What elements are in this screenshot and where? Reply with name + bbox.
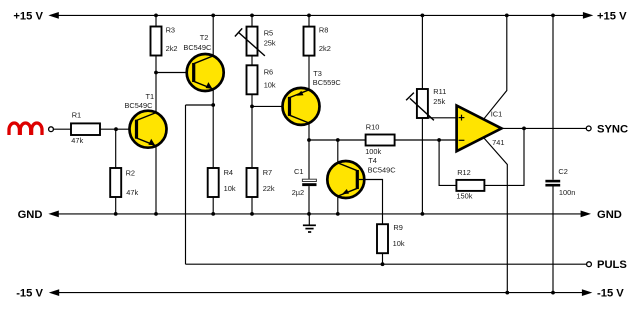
wire node A to R2 <box>115 129 117 168</box>
wire PULS line <box>186 263 587 265</box>
svg-text:47k: 47k <box>71 136 83 145</box>
+15V terminal right <box>583 10 627 22</box>
wire R11 wiper to GND rail <box>421 118 425 216</box>
svg-text:10k: 10k <box>224 184 236 193</box>
svg-text:R12: R12 <box>457 168 471 177</box>
preset R11 <box>406 87 446 121</box>
svg-text:R1: R1 <box>72 111 81 120</box>
svg-text:GND: GND <box>18 209 43 221</box>
wire GND rail <box>52 213 583 215</box>
svg-text:BC559C: BC559C <box>313 78 342 87</box>
transistor T1 <box>125 92 167 148</box>
wire +15V to R8 <box>307 14 311 27</box>
svg-text:C2: C2 <box>558 167 567 176</box>
svg-text:R4: R4 <box>224 168 233 177</box>
wire node D to T3 base <box>252 105 289 107</box>
wire node C down to PULS line <box>185 105 187 264</box>
svg-text:R7: R7 <box>263 168 272 177</box>
wire R5 to R6 <box>251 56 253 66</box>
wire T1 emitter to GND rail <box>154 146 158 216</box>
svg-text:741: 741 <box>492 138 504 147</box>
svg-text:BC549C: BC549C <box>183 43 212 52</box>
svg-text:-15 V: -15 V <box>16 288 43 300</box>
svg-text:25k: 25k <box>264 39 276 48</box>
input coil symbol <box>9 123 42 135</box>
svg-text:R2: R2 <box>126 168 135 177</box>
wire R3 to node B <box>154 56 158 75</box>
wire input to R1 <box>53 128 71 130</box>
svg-text:+15 V: +15 V <box>13 10 43 22</box>
-15V terminal left <box>16 288 59 300</box>
preset R5 <box>235 27 276 56</box>
resistor R4 <box>208 168 236 197</box>
wire R7 to GND rail <box>250 197 254 216</box>
wire R10 to opamp inverting input, node F <box>395 138 457 142</box>
wire feedback output to R12 <box>484 128 524 185</box>
wire R9 to PULS line <box>381 253 385 266</box>
svg-text:R8: R8 <box>319 26 328 35</box>
wire node E to R10 <box>309 138 366 142</box>
transistor T3 <box>283 69 342 125</box>
wire T4 base to R9 <box>359 180 383 225</box>
wire +15V to C2 <box>551 14 555 180</box>
svg-text:R6: R6 <box>264 68 273 77</box>
GND terminal right <box>581 209 622 221</box>
svg-text:2k2: 2k2 <box>319 44 331 53</box>
wire +15V rail <box>52 14 585 16</box>
resistor R3 <box>151 25 178 55</box>
wire T2 emitter to R4, node C <box>211 89 215 168</box>
wire C2 to -15V rail <box>551 187 555 295</box>
wire node E to C1 <box>308 140 310 179</box>
wire R4 to GND rail <box>211 197 215 216</box>
ground <box>303 214 316 232</box>
capacitor C2 <box>545 167 575 197</box>
svg-text:2k2: 2k2 <box>166 44 178 53</box>
wire opamp positive supply <box>484 14 509 120</box>
svg-text:T2: T2 <box>200 33 209 42</box>
resistor R1 <box>71 111 100 146</box>
wire +15V to T2 collector <box>211 14 215 57</box>
op-amp IC1 <box>457 106 505 152</box>
svg-text:-15 V: -15 V <box>597 288 624 300</box>
wire T4 emitter to GND rail <box>336 196 340 216</box>
svg-text:2µ2: 2µ2 <box>292 188 304 197</box>
svg-text:BC549C: BC549C <box>125 101 154 110</box>
svg-text:IC1: IC1 <box>491 110 503 119</box>
wire node C left <box>186 104 214 106</box>
svg-text:BC549C: BC549C <box>368 165 397 174</box>
resistor R2 <box>110 168 138 197</box>
svg-text:150k: 150k <box>456 191 472 200</box>
wire +15V to R11 <box>421 14 425 90</box>
svg-text:10k: 10k <box>264 81 276 90</box>
svg-text:25k: 25k <box>433 97 445 106</box>
svg-text:22k: 22k <box>263 184 275 193</box>
transistor T4 <box>327 156 396 198</box>
svg-text:R11: R11 <box>433 87 446 96</box>
wire R1 to T1 base, node A <box>100 127 136 131</box>
resistor R6 <box>247 65 276 94</box>
svg-text:R3: R3 <box>166 25 175 34</box>
wire T3 collector to node E <box>307 123 311 142</box>
resistor R10 <box>365 123 394 157</box>
wire R6 to node D <box>250 94 254 108</box>
svg-text:100n: 100n <box>559 188 575 197</box>
wire R2 to GND rail <box>114 197 118 216</box>
wire opamp output to SYNC <box>502 126 587 130</box>
wire R11 to opamp non-inverting input <box>422 117 456 119</box>
svg-text:PULS: PULS <box>597 259 627 271</box>
resistor R9 <box>377 223 405 253</box>
wire opamp negative supply <box>484 138 510 295</box>
svg-text:SYNC: SYNC <box>597 123 628 135</box>
wire node B to T2 base <box>156 72 193 74</box>
svg-text:47k: 47k <box>126 188 138 197</box>
svg-text:100k: 100k <box>365 147 381 156</box>
wire T4 collector to node E line <box>337 140 339 163</box>
wire +15V to R5 <box>250 14 254 27</box>
SYNC terminal <box>586 123 628 135</box>
svg-text:T4: T4 <box>368 156 377 165</box>
resistor R12 <box>456 168 484 200</box>
svg-text:10k: 10k <box>393 239 405 248</box>
svg-text:T1: T1 <box>146 92 155 101</box>
resistor R7 <box>247 168 275 197</box>
wire C1 to GND rail <box>307 186 311 216</box>
wire +15V to R3 <box>154 14 158 27</box>
wire node B to T1 collector <box>155 73 157 113</box>
+15V terminal left <box>13 10 58 22</box>
resistor R8 <box>304 26 331 56</box>
svg-text:T3: T3 <box>313 69 322 78</box>
svg-text:GND: GND <box>597 209 622 221</box>
wire -15V rail <box>52 292 584 294</box>
svg-text:R5: R5 <box>264 29 273 38</box>
capacitor C1 <box>292 167 317 197</box>
transistor T2 <box>183 33 223 91</box>
svg-text:R9: R9 <box>393 223 402 232</box>
-15V terminal right <box>582 288 624 300</box>
svg-text:C1: C1 <box>294 167 303 176</box>
wire node D to R7 <box>251 106 253 168</box>
GND terminal left <box>18 209 59 221</box>
svg-text:+15 V: +15 V <box>597 10 627 22</box>
svg-text:R10: R10 <box>366 123 380 132</box>
wire R8 to T3 emitter <box>308 56 310 90</box>
wire R12 to node F <box>439 140 456 185</box>
PULS terminal <box>587 259 628 271</box>
input terminal <box>49 127 54 132</box>
